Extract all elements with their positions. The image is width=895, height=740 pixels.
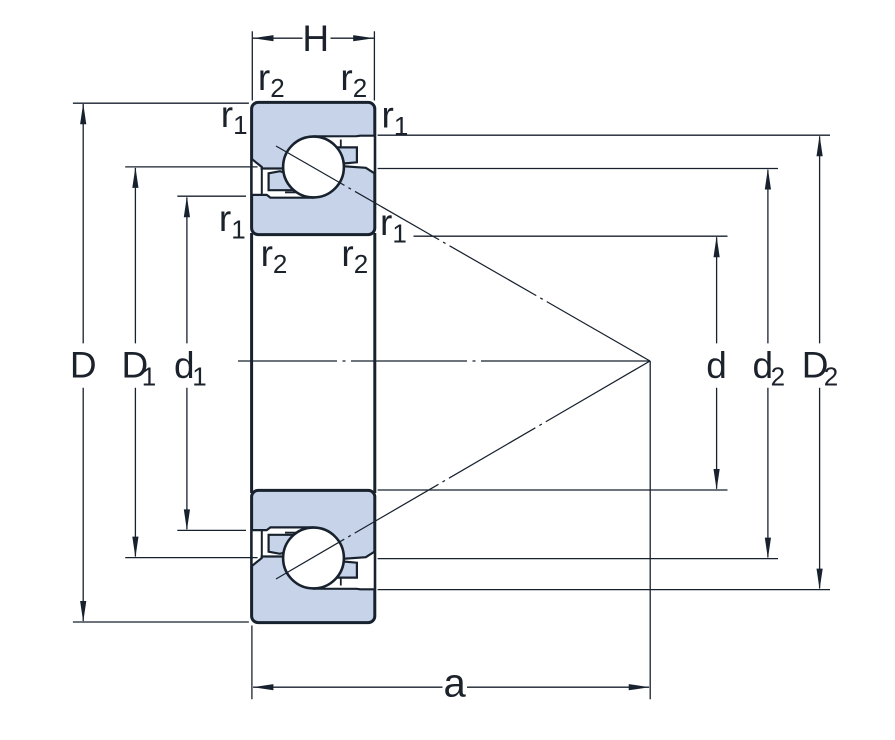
dimension D2 line — [819, 136, 821, 588]
arrowhead D top — [80, 103, 86, 124]
dimension d1 line — [186, 197, 188, 529]
contact angle line top (dash-dot) — [276, 146, 650, 361]
arrowhead a right — [629, 684, 650, 690]
dimension d extension lines — [378, 236, 728, 490]
dimension d1 extension lines — [177, 196, 246, 530]
dimension a line — [253, 686, 649, 688]
left face line between sections — [250, 233, 253, 493]
arrowhead d bottom — [714, 469, 720, 490]
arrowhead a left — [253, 684, 274, 690]
pressure centre vertical line — [649, 361, 651, 699]
dimension D2 extension lines — [378, 135, 830, 589]
arrowhead D2 bottom — [817, 569, 823, 590]
arrowhead d2 bottom — [765, 538, 771, 559]
arrowhead d2 top — [765, 169, 771, 190]
svg-text:a: a — [443, 662, 466, 706]
svg-text:H: H — [302, 18, 329, 59]
arrowhead d1 top — [184, 196, 190, 217]
outer ring shoulder block right — [331, 147, 357, 163]
arrowhead D bottom — [80, 601, 86, 622]
bottom bearing section (mirrored copy) — [252, 490, 375, 622]
dimension D1 line — [134, 168, 136, 557]
dimension a extension lines — [251, 626, 253, 700]
dimension d2 line — [767, 170, 769, 558]
inner ring shoulder block left — [269, 171, 300, 190]
arrowhead d top — [714, 236, 720, 257]
raceway land edge right — [340, 140, 342, 148]
ball — [283, 137, 344, 198]
axis centerline (dash-dot) — [238, 360, 650, 362]
dimension d line — [716, 237, 718, 488]
arrowhead d1 bottom — [184, 509, 190, 530]
arrowhead D1 top — [132, 167, 138, 188]
contact angle line bottom (dash-dot) — [276, 361, 650, 579]
dimension D1 extension lines — [125, 167, 257, 558]
inner ring face edge in gap — [261, 167, 263, 195]
arrowhead H right — [353, 35, 374, 41]
dimension H line — [253, 37, 375, 39]
dimension D extension lines — [73, 103, 249, 622]
dimension D line — [82, 104, 84, 621]
svg-text:D: D — [70, 345, 97, 386]
svg-text:d: d — [706, 345, 727, 386]
top bearing section — [252, 102, 375, 234]
dimension H extension lines — [252, 31, 374, 100]
arrowhead H left — [253, 35, 274, 41]
raceway gap channel — [252, 136, 375, 198]
outer/inner ring body (rounded cross-section) — [252, 102, 375, 234]
arrowhead D2 top — [817, 135, 823, 156]
arrowhead D1 bottom — [132, 537, 138, 558]
dimension d2 extension lines — [378, 169, 778, 559]
raceway land edge left — [285, 191, 297, 193]
right face line between sections — [373, 233, 376, 493]
